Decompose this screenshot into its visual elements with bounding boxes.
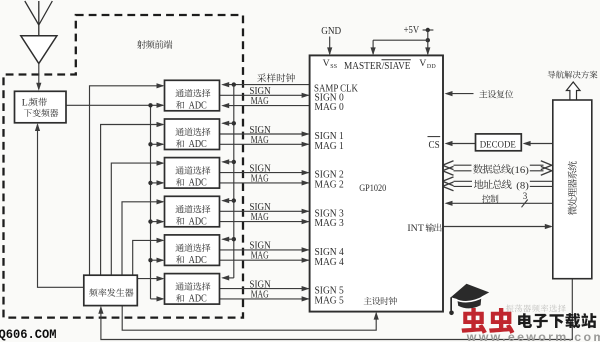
svg-text:3: 3 xyxy=(523,191,528,201)
svg-text:DECODE: DECODE xyxy=(480,139,516,150)
svg-text:MAG 5: MAG 5 xyxy=(315,296,344,307)
svg-text:V: V xyxy=(323,58,330,69)
svg-text:ADC: ADC xyxy=(189,216,207,227)
svg-text:L.: L. xyxy=(22,98,30,109)
svg-text:MAG 2: MAG 2 xyxy=(315,180,344,191)
svg-text:MAG: MAG xyxy=(251,289,269,300)
svg-text:MAG: MAG xyxy=(251,173,269,184)
svg-text:V: V xyxy=(419,58,426,69)
svg-text:(8): (8) xyxy=(516,181,529,191)
svg-text:ADC: ADC xyxy=(189,178,207,189)
svg-text:ADC: ADC xyxy=(189,100,207,111)
svg-text:GP1020: GP1020 xyxy=(359,183,386,194)
svg-text:ADC: ADC xyxy=(189,139,207,150)
svg-text:ADC: ADC xyxy=(189,294,207,305)
svg-text:+5V: +5V xyxy=(404,25,420,36)
svg-text:CS: CS xyxy=(429,140,440,151)
svg-text:MASTER/SIAVE: MASTER/SIAVE xyxy=(344,61,411,72)
svg-text:MAG 3: MAG 3 xyxy=(315,218,344,229)
svg-text:ADC: ADC xyxy=(189,255,207,266)
svg-text:(16): (16) xyxy=(511,165,529,176)
svg-text:SS: SS xyxy=(330,64,337,70)
svg-text:MAG: MAG xyxy=(251,96,269,107)
svg-text:Q606.COM: Q606.COM xyxy=(0,327,57,342)
svg-text:DD: DD xyxy=(427,64,437,70)
svg-text:MAG 0: MAG 0 xyxy=(315,102,344,113)
svg-text:MAG: MAG xyxy=(251,212,269,223)
svg-text:MAG: MAG xyxy=(251,251,269,262)
svg-text:MAG: MAG xyxy=(251,135,269,146)
svg-text:MAG 4: MAG 4 xyxy=(315,257,345,268)
svg-text:MAG 1: MAG 1 xyxy=(315,141,344,152)
svg-text:GND: GND xyxy=(321,26,341,37)
svg-text:INT: INT xyxy=(407,223,424,234)
